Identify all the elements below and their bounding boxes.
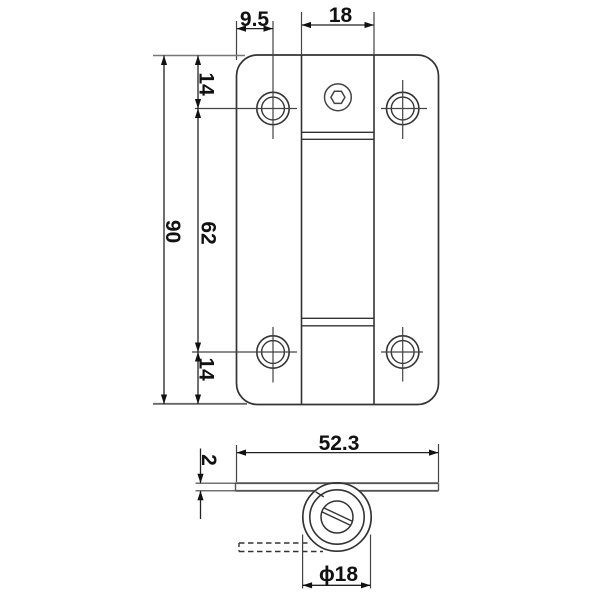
- center line top-right hole vertical: [402, 80, 404, 139]
- barrel outer circle: [303, 483, 371, 551]
- center line top-left hole vertical (also 9.5 extension): [272, 21, 274, 139]
- bar right end cap: [438, 483, 440, 491]
- dimension 9.5 extension line left: [236, 21, 238, 60]
- center line top-right hole horizontal: [381, 108, 427, 110]
- center line bottom-left hole horizontal: [192, 351, 297, 353]
- hinge plate outline (top view): [237, 55, 439, 405]
- dimension 2 line lower: [200, 491, 202, 519]
- svg-text:52.3: 52.3: [319, 432, 360, 455]
- svg-text:62: 62: [197, 221, 220, 244]
- screw hole bottom-right: [387, 336, 419, 368]
- screw hole bottom-left: [257, 336, 289, 368]
- svg-text:14: 14: [195, 357, 218, 381]
- svg-text:9.5: 9.5: [240, 8, 270, 31]
- dimension phi18 extension right: [370, 535, 372, 589]
- svg-text:2: 2: [197, 454, 220, 466]
- svg-text:ϕ18: ϕ18: [319, 563, 358, 586]
- dimension 52.3 extension right: [438, 444, 440, 483]
- dimension 52.3 line: [237, 452, 439, 454]
- hex socket: [325, 84, 352, 111]
- dimension 2 extension bottom: [196, 490, 237, 492]
- dimension 14 bottom line: [197, 352, 199, 404]
- knuckle seam upper pair: [302, 131, 375, 133]
- dimension phi18 extension left: [302, 535, 304, 589]
- transition nick: [316, 492, 324, 497]
- dimension phi18 line: [303, 584, 371, 586]
- screw hole top-left: [257, 92, 289, 124]
- svg-text:18: 18: [329, 4, 353, 27]
- screw hole top-right: [387, 92, 419, 124]
- hidden pin dashed top: [239, 542, 311, 544]
- svg-text:14: 14: [195, 72, 218, 96]
- side view bar bottom line right segment: [359, 490, 438, 492]
- dimension 2 extension top: [196, 482, 237, 484]
- svg-text:90: 90: [161, 220, 184, 243]
- dimension 52.3 extension left: [236, 445, 238, 482]
- side view bar bottom line left segment: [236, 490, 315, 492]
- dimension 18 extension lines: [301, 12, 303, 55]
- dimension 62 line: [197, 109, 199, 353]
- dimension 14 top line: [197, 56, 199, 109]
- screw head circle: [321, 501, 353, 533]
- dimension 9.5 line: [237, 28, 274, 30]
- center line bottom-right hole vertical: [402, 327, 404, 382]
- center line bottom-right hole horizontal: [381, 351, 423, 353]
- hidden pin dashed bottom: [239, 551, 323, 553]
- barrel ring circle: [310, 490, 364, 544]
- bar left end cap: [235, 483, 237, 491]
- extension line top edge: [153, 55, 245, 57]
- knuckle seam lower pair: [302, 317, 375, 319]
- side view bar top line: [236, 482, 439, 484]
- dimension 18 line: [302, 24, 375, 26]
- dimension 90 line: [163, 56, 165, 405]
- extension line bottom edge: [153, 403, 247, 405]
- dimension 2 line upper: [200, 449, 202, 484]
- hidden pin dashed left cap: [238, 543, 240, 552]
- leaf fold line left: [301, 55, 303, 405]
- center line top-left hole horizontal: [195, 108, 297, 110]
- screw slot upper line: [324, 508, 353, 521]
- screw slot lower line: [322, 512, 351, 525]
- leaf fold line right: [373, 55, 375, 405]
- center line bottom-left hole vertical: [272, 327, 274, 383]
